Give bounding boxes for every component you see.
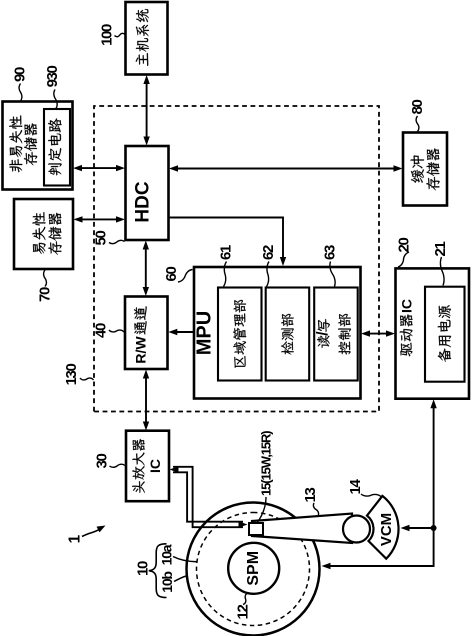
svg-text:62: 62 [260, 245, 277, 260]
svg-text:IC: IC [399, 299, 415, 313]
wire: HDC - buffer memory double arrow [169, 165, 403, 171]
svg-text:12: 12 [235, 605, 252, 620]
wire: volatile memory - HDC double arrow [74, 216, 126, 222]
svg-text:13: 13 [302, 488, 319, 503]
disk platter outer circle 10 [187, 503, 320, 636]
svg-text:10a: 10a [159, 544, 175, 565]
label 63 [321, 245, 338, 286]
svg-text:63: 63 [321, 245, 338, 260]
box: non-volatile memory (非易失性存储器) 90 [3, 102, 73, 190]
label 130 [63, 364, 94, 386]
svg-text:40: 40 [93, 323, 110, 338]
svg-text:100: 100 [99, 24, 116, 46]
label 62 [260, 245, 277, 286]
wire: HDC - host system double arrow [143, 75, 149, 146]
svg-text:60: 60 [163, 267, 180, 282]
box: read/write control unit (读/写控制部) 63 [314, 288, 358, 381]
label 40 [93, 323, 125, 338]
wire: non-volatile memory - HDC double arrow [73, 165, 125, 171]
svg-text:10: 10 [135, 561, 152, 576]
disk inner dashed circle (zone boundary) [197, 513, 310, 626]
label 14 [347, 479, 381, 497]
label 90 [12, 67, 29, 101]
svg-text:80: 80 [409, 100, 426, 115]
label 50 [93, 231, 125, 246]
svg-text:930: 930 [44, 66, 61, 88]
box: driver IC (驱动器IC) 20 [396, 268, 470, 398]
label 1 figure pointer [67, 526, 106, 544]
label 20 [396, 238, 413, 267]
svg-text:70: 70 [37, 287, 54, 302]
box: volatile memory (易失性存储器) 70 [14, 199, 73, 269]
SPM spindle motor circle 12 [228, 543, 279, 594]
svg-text:20: 20 [396, 238, 413, 253]
svg-text:R/W: R/W [133, 336, 149, 364]
box: detection unit (检测部) 62 [266, 288, 310, 381]
svg-text:1: 1 [67, 534, 84, 543]
label 60 [163, 267, 193, 282]
svg-text:30: 30 [94, 454, 111, 469]
wire: HDC to MPU L-shaped arrow [169, 218, 287, 267]
label 70 [37, 270, 54, 302]
label 30 [94, 454, 126, 469]
svg-text:HDC: HDC [133, 181, 154, 222]
box: head amplifier IC (头放大器IC) 30 [126, 431, 169, 502]
label 930 [44, 66, 61, 109]
VCM fan shape 14 [367, 496, 399, 559]
box: decision circuit (判定电路) 930 [44, 109, 70, 186]
svg-text:50: 50 [93, 231, 110, 246]
actuator pivot bearing [343, 516, 370, 543]
wire: R/W channel - HDC double arrow [143, 241, 149, 297]
label 61 [218, 245, 235, 286]
label 10 with brace and 10a 10b [135, 544, 197, 598]
box: buffer memory (缓冲存储器) 80 [403, 133, 447, 206]
box: zone management unit (区域管理部) 61 [218, 288, 262, 381]
box: host system (主机系统) 100 [126, 2, 168, 75]
svg-text:130: 130 [63, 364, 80, 386]
box: R/W channel (R/W通道) 40 [125, 297, 168, 370]
wire: driver IC to VCM and SPM with junction [322, 399, 437, 569]
svg-text:90: 90 [12, 67, 29, 82]
dashed enclosure 130 [94, 106, 379, 412]
svg-text:MPU: MPU [194, 311, 216, 355]
wire: R/W channel - head amplifier double arrow [143, 370, 149, 431]
label 21 [432, 242, 449, 286]
svg-text:SPM: SPM [245, 551, 262, 586]
label 13 [302, 488, 319, 516]
label 15(15W,15R) [257, 431, 274, 523]
wire: head amplifier to head slider double-line trace [170, 466, 248, 527]
svg-text:10b: 10b [159, 572, 175, 593]
svg-text:21: 21 [432, 242, 449, 257]
head slider 15 [249, 523, 263, 535]
svg-text:/: / [315, 331, 332, 336]
label 100 [99, 24, 126, 46]
svg-text:14: 14 [347, 479, 364, 495]
box: backup power supply (备用电源) 21 [425, 287, 465, 382]
wire: MPU to R/W channel arrow [168, 329, 193, 335]
svg-text:15(15W,15R): 15(15W,15R) [259, 431, 274, 496]
VCM label text [378, 513, 395, 546]
label 12 [235, 593, 252, 619]
actuator arm 13 [252, 514, 352, 544]
svg-text:IC: IC [147, 459, 163, 473]
svg-text:61: 61 [218, 245, 235, 260]
label 80 [409, 100, 426, 132]
svg-text:VCM: VCM [378, 513, 395, 546]
box: HDC 50 [126, 146, 169, 240]
box: MPU 60 [194, 267, 361, 399]
wire: MPU - driver IC double arrow [361, 330, 395, 336]
